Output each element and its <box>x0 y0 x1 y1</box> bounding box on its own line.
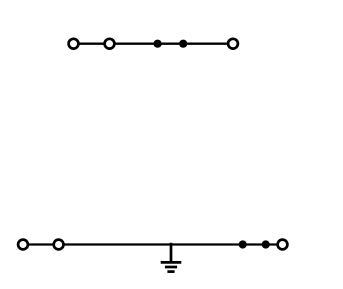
terminal circle 3 (upper right clamp) <box>228 39 238 49</box>
terminal circle 1 (upper left clamp) <box>69 39 79 49</box>
wire (lower level conductor) <box>23 243 283 245</box>
terminal circle 6 (lower right clamp) <box>278 240 288 250</box>
junction dot 2 (upper wire) <box>179 40 187 48</box>
junction dot 1 (upper wire) <box>154 40 162 48</box>
terminal circle 4 (lower far-left clamp) <box>18 240 28 250</box>
terminal circle 5 (lower second clamp) <box>54 240 64 250</box>
junction dot 3 (lower wire) <box>239 240 247 248</box>
terminal circle 2 (upper second clamp) <box>105 39 115 49</box>
junction dot 4 (lower wire) <box>262 240 270 248</box>
ground <box>161 243 182 272</box>
wire (upper level conductor) <box>74 43 234 45</box>
